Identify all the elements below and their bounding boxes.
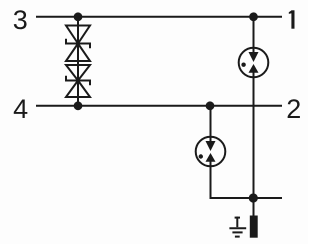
gas discharge tube F2 gas dot (199, 154, 203, 158)
wire from earth bus node down to PE terminal block (253, 198, 255, 216)
TVS diode D1 zener bar (66, 39, 90, 48)
junction node on wire 2 at gas tube branch (206, 101, 215, 110)
TVS diode D2 lower triangle (66, 81, 90, 98)
gas discharge tube F2 upper electrode (206, 141, 216, 151)
TVS diode D2 zener bar (66, 76, 90, 85)
wire from node on line 2 down to gas tube F2 (210, 106, 212, 142)
wire line 4 to 2 (lower horizontal) (36, 105, 282, 107)
gas discharge tube F1 upper electrode (249, 52, 259, 62)
svg-text:4: 4 (13, 94, 28, 124)
wire from gas tube F1 down across wire 2 to earth bus (253, 73, 255, 199)
TVS diode D2 upper triangle (66, 65, 90, 81)
earth ground symbol (229, 217, 246, 237)
gas discharge tube F1 gas dot (241, 62, 245, 66)
junction node on wire 4 at stack (74, 101, 83, 110)
junction node on earth bus (249, 193, 258, 202)
svg-text:3: 3 (13, 5, 28, 35)
PE terminal block (solid bar) (250, 216, 258, 238)
wire vertical through suppressor stack (77, 17, 79, 106)
TVS diode D1 lower triangle (66, 44, 90, 62)
gas discharge tube F2 lower electrode (206, 153, 216, 162)
TVS diode D1 upper triangle (66, 26, 90, 44)
junction node 1 on wire 1 (249, 12, 258, 21)
junction node on wire 3 at stack (74, 12, 83, 21)
gas discharge tube F1 circle (239, 48, 269, 78)
wire line 3 to 1 (top horizontal) (36, 16, 282, 18)
wire bottom earth bus horizontal (210, 197, 283, 199)
terminal label 1 (289, 10, 295, 28)
svg-text:2: 2 (286, 94, 301, 124)
gas discharge tube F2 circle (196, 137, 226, 167)
wire from node 1 down to gas tube F1 (253, 17, 255, 53)
gas discharge tube F1 lower electrode (249, 64, 259, 73)
wire from gas tube F2 down to earth bus (210, 162, 212, 199)
